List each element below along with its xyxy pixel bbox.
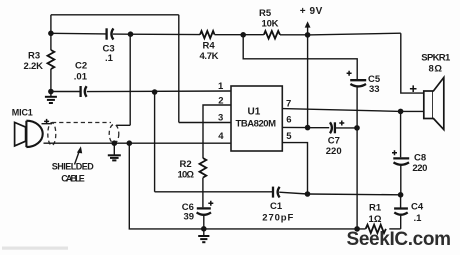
- op-amp U1 TBA820M: [231, 86, 282, 151]
- node: +9V supply junction: [305, 32, 311, 38]
- pin number 2: [218, 96, 223, 107]
- power +9V arrow: [300, 6, 323, 35]
- wire: R4 to R5: [215, 34, 264, 36]
- mic plus polarity mark: [44, 119, 49, 124]
- wire: mic top conductor into shield: [42, 123, 53, 125]
- wire: ground rail left drop and run: [129, 143, 365, 229]
- svg-text:3: 3: [218, 113, 223, 124]
- node: shield ground junction: [112, 140, 118, 146]
- svg-text:4.7K: 4.7K: [200, 51, 219, 62]
- wire: C2 to U1 pin 1: [87, 90, 231, 93]
- wire: riser from mic conductor up to bias node: [129, 34, 131, 125]
- node: R4/R5/C5 junction: [240, 32, 246, 38]
- svg-text:5: 5: [286, 131, 292, 142]
- wire: R4/R5 node drop and run to C5: [243, 35, 357, 79]
- node: speaker minus / C8 junction: [398, 109, 404, 115]
- wire: supply drop from +9V node to pin 6: [307, 35, 309, 128]
- capacitor C7: [326, 121, 345, 158]
- resistor R3: [24, 33, 55, 91]
- wire: C4 top lead: [400, 195, 402, 208]
- ground below R3: [45, 92, 57, 104]
- wire: C6 to ground rail: [203, 215, 205, 229]
- svg-text:.1: .1: [105, 53, 114, 64]
- microphone MIC1: [12, 108, 43, 148]
- wire: pin6 node to C7: [308, 127, 330, 129]
- wire: speaker minus stub: [401, 110, 425, 112]
- wire: C8 top lead: [400, 111, 402, 157]
- wire: R2 to C6: [202, 178, 204, 208]
- pin number 7: [286, 99, 291, 110]
- wire: mic top conductor from shield to riser: [117, 124, 131, 126]
- node: decoupling / ground rail junction: [354, 226, 360, 232]
- svg-text:2.2K: 2.2K: [24, 61, 44, 72]
- resistor R5: [259, 8, 280, 39]
- wire: left vertical of top loop: [50, 15, 52, 34]
- wire: mic bottom conductor to U1 pin 4: [44, 142, 232, 144]
- node: mic+/C3 junction: [128, 31, 134, 37]
- wire: ground node to C2: [51, 91, 80, 93]
- wire: pin 3 stub into U1: [179, 122, 231, 124]
- svg-text:SHIELDED: SHIELDED: [52, 162, 95, 172]
- capacitor C1: [262, 187, 293, 224]
- wire: R5 to supply node: [280, 34, 308, 36]
- svg-text:270pF: 270pF: [262, 213, 293, 224]
- speaker SPKR1: [421, 53, 451, 130]
- svg-text:10Ω: 10Ω: [178, 170, 195, 181]
- shielded cable dashed shield: [48, 123, 119, 146]
- pin number 6: [286, 115, 291, 126]
- svg-text:.1: .1: [414, 213, 423, 224]
- capacitor C3: [103, 28, 115, 64]
- svg-text:R3: R3: [28, 51, 40, 62]
- svg-text:R5: R5: [259, 8, 272, 19]
- capacitor C5: [347, 71, 381, 95]
- svg-text:C4: C4: [411, 202, 424, 213]
- capacitor C8: [392, 150, 427, 174]
- wire: pin 7 line to speaker minus node: [282, 109, 400, 112]
- svg-text:C2: C2: [75, 61, 87, 72]
- node: ground-rail drop junction: [127, 140, 133, 146]
- pin number 3: [218, 113, 223, 124]
- svg-text:R2: R2: [180, 159, 192, 170]
- svg-text:39: 39: [184, 212, 195, 223]
- svg-text:+ 9V: + 9V: [300, 6, 323, 17]
- wire: C5 bottom through decoupling node to ground rail: [356, 86, 358, 229]
- svg-text:6: 6: [286, 115, 291, 126]
- svg-text:220: 220: [326, 146, 342, 157]
- wire: pin 5 stub and drop: [282, 143, 307, 194]
- svg-text:SeekIC.com: SeekIC.com: [347, 229, 452, 250]
- node: feedback tap on pin1 wire: [152, 89, 158, 95]
- wire: pin5 node to C8 bottom node: [308, 193, 401, 196]
- node: supply to pin 6 junction: [305, 125, 311, 131]
- wire: C4 bottom lead to rail: [400, 215, 402, 229]
- node: C7 / C5 decoupling junction: [354, 125, 360, 131]
- capacitor C4: [394, 202, 424, 225]
- svg-text:7: 7: [286, 99, 291, 110]
- wire: feedback tap down to C1 wire: [154, 92, 156, 192]
- svg-text:SPKR1: SPKR1: [421, 53, 451, 64]
- wire: right column down to speaker plus: [401, 33, 425, 93]
- ground below C6: [198, 229, 209, 242]
- node: output / C8 / C4 junction: [398, 192, 404, 198]
- svg-text:1: 1: [218, 81, 224, 92]
- node: pin 5 / C1 junction: [305, 191, 311, 197]
- svg-text:4: 4: [218, 131, 224, 142]
- svg-text:R1: R1: [369, 203, 382, 214]
- svg-text:1Ω: 1Ω: [369, 214, 382, 225]
- svg-text:C7: C7: [328, 136, 340, 147]
- svg-text:8Ω: 8Ω: [429, 64, 443, 75]
- node: R3 top / top-loop junction: [48, 31, 54, 37]
- wire: C3 to R4: [113, 33, 200, 36]
- wire: C1 to pin5 node: [279, 192, 307, 194]
- wire: pin 6 stub: [282, 126, 307, 128]
- resistor R2: [178, 158, 207, 181]
- wire: input top loop horizontal: [51, 14, 179, 16]
- label: SHIELDED CABLE with arrow: [52, 146, 95, 183]
- svg-text:C8: C8: [414, 153, 426, 164]
- wire: bias rail R3-top to C3: [51, 32, 106, 35]
- resistor R4: [200, 31, 219, 62]
- wire: R1 to C4 bottom corner: [389, 228, 400, 230]
- wire: right vertical of top loop down to pin 3: [178, 15, 180, 123]
- capacitor C2: [74, 61, 88, 98]
- speaker plus polarity mark: [410, 85, 417, 92]
- svg-text:C1: C1: [270, 201, 283, 212]
- node: R3 bottom / ground / C2: [48, 89, 54, 95]
- svg-text:220: 220: [412, 163, 427, 174]
- scan smudge bottom left: [2, 247, 68, 250]
- ground below shield: [108, 143, 121, 160]
- svg-text:33: 33: [369, 84, 380, 95]
- wire: C8 bottom lead: [400, 165, 402, 195]
- capacitor C6: [182, 201, 214, 223]
- svg-text:MIC1: MIC1: [12, 108, 33, 118]
- wire: C7 to decoupling node: [336, 127, 358, 129]
- svg-text:10K: 10K: [262, 19, 279, 30]
- svg-text:R4: R4: [203, 41, 216, 52]
- svg-text:TBA820M: TBA820M: [236, 119, 277, 130]
- wire: pin 2 stub and drop to R2: [203, 105, 231, 158]
- watermark SeekIC.com: [347, 229, 452, 250]
- svg-text:U1: U1: [248, 107, 261, 118]
- wire: feedback run to C1: [155, 191, 273, 193]
- resistor R1: [366, 203, 386, 234]
- node: C6 / ground rail junction: [201, 226, 207, 232]
- wire: supply node to speaker corner: [308, 33, 401, 35]
- pin number 4: [218, 131, 224, 142]
- pin number 1: [218, 81, 224, 92]
- svg-text:CABLE: CABLE: [61, 174, 85, 184]
- svg-text:.01: .01: [74, 72, 88, 83]
- pin number 5: [286, 131, 292, 142]
